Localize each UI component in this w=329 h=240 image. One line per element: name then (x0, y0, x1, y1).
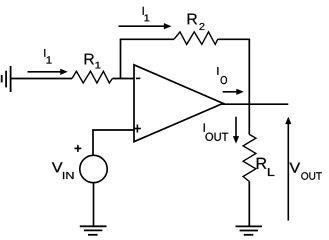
op-amp U1 (134, 65, 223, 142)
resistor R2 (174, 32, 218, 45)
wire: top feedback horizontal to R2 (120, 38, 175, 40)
resistor RL (243, 134, 256, 181)
wire: VIN to source ground (93, 183, 95, 227)
op-amp inverting pin label (minus) (136, 77, 140, 79)
label I1 (feedback current) (143, 7, 150, 21)
wire: R2 to output node (top corner and vertical down) (218, 39, 249, 104)
current arrow I1 (input) (28, 69, 68, 75)
arrow VOUT (voltage reference arrow) (285, 117, 291, 221)
current arrow IOUT (233, 117, 239, 144)
wire: R1 to op-amp inverting input (112, 78, 134, 80)
label IO (217, 67, 227, 84)
wire: left ground to R1 (11, 78, 72, 80)
label IOUT (204, 124, 229, 141)
wire: RL to load ground (248, 182, 250, 227)
label R1 (85, 54, 101, 69)
ground (load) (236, 226, 263, 234)
ground (input, left, rotated) (2, 66, 11, 92)
op-amp non-inverting pin label (plus) (134, 125, 141, 133)
wire: output node down to RL (248, 104, 250, 134)
ground (source) (80, 226, 107, 235)
current arrow IO (223, 89, 244, 95)
label VIN (52, 162, 74, 179)
label VOUT (290, 163, 322, 180)
label I1 (input current) (44, 49, 51, 63)
label VIN plus polarity (74, 145, 81, 152)
wire: feedback vertical (junction up to top wire) (120, 39, 122, 78)
wire: op-amp non-inverting input to VIN (93, 130, 134, 155)
label R2 (188, 14, 205, 30)
wire: op-amp output to VOUT node (222, 103, 288, 105)
current arrow I1 (feedback) (119, 23, 172, 29)
source VIN (circle) (80, 155, 107, 182)
resistor R1 (72, 71, 112, 83)
label RL (257, 158, 275, 176)
